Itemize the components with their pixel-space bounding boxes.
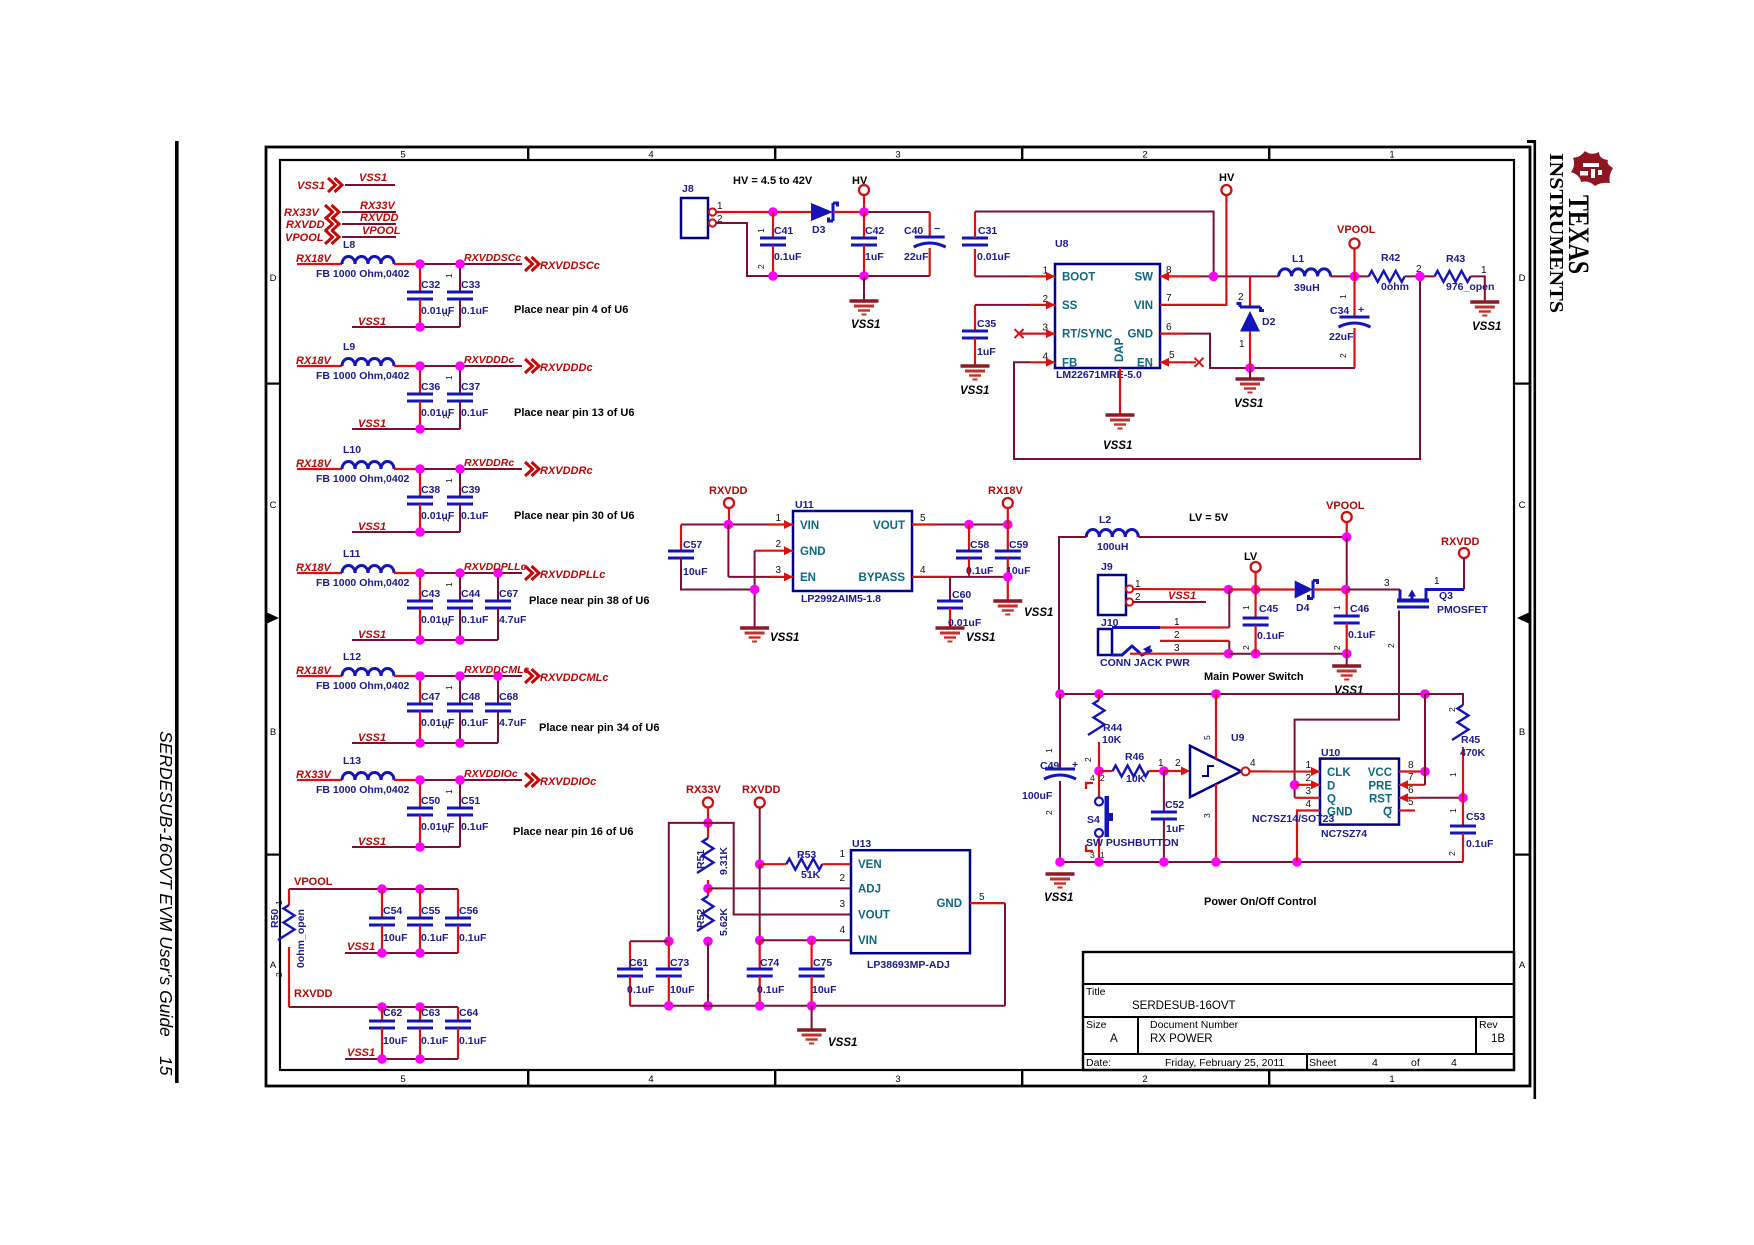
svg-text:L2: L2 — [1099, 514, 1111, 526]
svg-text:C43: C43 — [421, 588, 440, 600]
svg-text:C63: C63 — [421, 1007, 440, 1019]
svg-text:C45: C45 — [1259, 603, 1278, 615]
svg-text:4: 4 — [1305, 799, 1311, 810]
svg-text:976_open: 976_open — [1446, 281, 1494, 293]
svg-text:0.1uF: 0.1uF — [461, 717, 489, 729]
svg-text:RX33V: RX33V — [284, 207, 321, 219]
svg-text:2: 2 — [1447, 851, 1457, 856]
svg-text:C68: C68 — [499, 691, 518, 703]
svg-text:22uF: 22uF — [1329, 331, 1354, 343]
svg-text:0.1uF: 0.1uF — [627, 984, 655, 996]
svg-text:RXVDDIOc: RXVDDIOc — [540, 776, 596, 788]
svg-text:RXVDDIOc: RXVDDIOc — [464, 768, 518, 780]
svg-text:100uH: 100uH — [1097, 541, 1129, 553]
svg-text:C39: C39 — [461, 484, 480, 496]
svg-text:8: 8 — [1408, 760, 1414, 771]
svg-text:7: 7 — [1408, 772, 1414, 783]
svg-text:10K: 10K — [1102, 734, 1122, 746]
svg-text:3: 3 — [1384, 578, 1390, 589]
svg-text:VIN: VIN — [858, 935, 877, 947]
svg-text:1: 1 — [756, 228, 766, 233]
svg-text:D4: D4 — [1296, 602, 1310, 614]
svg-text:Place near pin 38 of U6: Place near pin 38 of U6 — [529, 595, 649, 607]
svg-text:39uH: 39uH — [1294, 282, 1320, 294]
svg-text:0ohm: 0ohm — [1381, 281, 1409, 293]
svg-text:C55: C55 — [421, 905, 440, 917]
svg-text:of: of — [1411, 1057, 1420, 1069]
svg-text:1: 1 — [444, 685, 454, 690]
svg-text:2: 2 — [1332, 645, 1342, 650]
svg-text:RST: RST — [1369, 794, 1392, 806]
svg-text:C41: C41 — [774, 225, 793, 237]
svg-text:RXVDD: RXVDD — [1441, 536, 1480, 548]
svg-text:B: B — [270, 727, 276, 738]
svg-text:4: 4 — [648, 150, 653, 161]
svg-text:VSS1: VSS1 — [1103, 440, 1132, 452]
svg-text:VSS1: VSS1 — [1472, 321, 1501, 333]
svg-text:D2: D2 — [1262, 316, 1276, 328]
svg-text:U9: U9 — [1231, 732, 1245, 744]
svg-text:RXVDD: RXVDD — [360, 212, 399, 224]
svg-text:1: 1 — [1338, 294, 1348, 299]
svg-text:VSS1: VSS1 — [359, 172, 387, 184]
svg-text:R51: R51 — [695, 850, 707, 869]
svg-text:RX POWER: RX POWER — [1150, 1033, 1213, 1045]
svg-text:FB 1000 Ohm,0402: FB 1000 Ohm,0402 — [316, 473, 410, 485]
svg-text:4: 4 — [920, 565, 926, 576]
svg-text:2: 2 — [756, 264, 766, 269]
svg-text:1: 1 — [1239, 339, 1245, 350]
svg-text:C54: C54 — [383, 905, 402, 917]
svg-text:3: 3 — [1090, 850, 1095, 860]
svg-text:SERDESUB-16OVT: SERDESUB-16OVT — [1132, 1000, 1236, 1012]
svg-text:2: 2 — [1174, 630, 1180, 641]
svg-text:RXVDDDc: RXVDDDc — [464, 354, 514, 366]
svg-text:U11: U11 — [795, 499, 814, 511]
svg-text:VSS1: VSS1 — [358, 836, 386, 848]
svg-text:4: 4 — [1090, 773, 1095, 783]
svg-text:VCC: VCC — [1368, 767, 1392, 779]
svg-text:0ohm_open: 0ohm_open — [295, 909, 307, 968]
svg-text:VSS1: VSS1 — [358, 629, 386, 641]
svg-text:+: + — [1072, 759, 1078, 771]
svg-text:Q: Q — [1383, 807, 1392, 819]
svg-text:1: 1 — [444, 478, 454, 483]
svg-text:C33: C33 — [461, 279, 480, 291]
svg-text:5: 5 — [1169, 350, 1175, 361]
svg-text:C58: C58 — [970, 539, 989, 551]
svg-text:4.7uF: 4.7uF — [499, 614, 527, 626]
svg-text:VSS1: VSS1 — [1044, 892, 1073, 904]
svg-text:C73: C73 — [670, 957, 689, 969]
svg-text:1: 1 — [444, 375, 454, 380]
svg-text:5: 5 — [920, 513, 926, 524]
svg-text:C75: C75 — [813, 957, 832, 969]
svg-text:15: 15 — [156, 1056, 176, 1076]
svg-text:2: 2 — [839, 873, 845, 884]
svg-text:CLK: CLK — [1327, 767, 1351, 779]
svg-text:2: 2 — [1305, 773, 1311, 784]
svg-text:2: 2 — [1447, 707, 1457, 712]
svg-text:RXVDDCMLc: RXVDDCMLc — [464, 664, 529, 676]
svg-text:Friday, February 25, 2011: Friday, February 25, 2011 — [1165, 1057, 1284, 1069]
svg-text:L10: L10 — [343, 444, 361, 456]
svg-text:C61: C61 — [629, 957, 648, 969]
svg-text:10uF: 10uF — [812, 984, 837, 996]
svg-text:U13: U13 — [852, 838, 871, 850]
svg-text:R45: R45 — [1461, 734, 1480, 746]
svg-text:0.1uF: 0.1uF — [461, 821, 489, 833]
svg-text:RXVDDSCc: RXVDDSCc — [540, 260, 600, 272]
svg-text:VSS1: VSS1 — [358, 521, 386, 533]
svg-text:C53: C53 — [1466, 811, 1485, 823]
svg-text:1: 1 — [1434, 576, 1440, 587]
svg-text:1: 1 — [1481, 265, 1487, 276]
svg-text:VSS1: VSS1 — [1334, 685, 1363, 697]
svg-text:BOOT: BOOT — [1062, 271, 1095, 283]
svg-text:0.01uF: 0.01uF — [977, 251, 1011, 263]
svg-text:10uF: 10uF — [670, 984, 695, 996]
svg-text:GND: GND — [800, 546, 826, 558]
svg-text:100uF: 100uF — [1022, 790, 1053, 802]
svg-text:C67: C67 — [499, 588, 518, 600]
svg-text:Rev: Rev — [1479, 1019, 1498, 1031]
svg-text:FB 1000 Ohm,0402: FB 1000 Ohm,0402 — [316, 577, 410, 589]
svg-text:5: 5 — [400, 1074, 405, 1085]
svg-text:5: 5 — [400, 150, 405, 161]
svg-text:C38: C38 — [421, 484, 440, 496]
svg-text:VSS1: VSS1 — [358, 418, 386, 430]
svg-text:C51: C51 — [461, 795, 480, 807]
svg-text:1: 1 — [274, 900, 284, 905]
svg-text:Title: Title — [1086, 986, 1106, 998]
svg-text:VSS1: VSS1 — [960, 385, 989, 397]
svg-text:Date:: Date: — [1086, 1057, 1111, 1069]
svg-text:1B: 1B — [1491, 1033, 1505, 1045]
svg-text:0.1uF: 0.1uF — [461, 510, 489, 522]
svg-text:10uF: 10uF — [383, 932, 408, 944]
svg-text:2: 2 — [1100, 773, 1105, 783]
svg-text:PMOSFET: PMOSFET — [1437, 604, 1488, 616]
svg-text:Size: Size — [1086, 1019, 1107, 1031]
svg-text:SERDESUB-16OVT EVM User's Guid: SERDESUB-16OVT EVM User's Guide — [156, 731, 176, 1037]
svg-text:R42: R42 — [1381, 252, 1400, 264]
svg-text:VSS1: VSS1 — [358, 316, 386, 328]
svg-text:1: 1 — [1389, 1074, 1394, 1085]
svg-text:2: 2 — [441, 828, 451, 833]
svg-text:FB 1000 Ohm,0402: FB 1000 Ohm,0402 — [316, 370, 410, 382]
svg-text:VPOOL: VPOOL — [285, 232, 324, 244]
svg-text:2: 2 — [1238, 292, 1244, 303]
svg-text:C50: C50 — [421, 795, 440, 807]
svg-text:D3: D3 — [812, 224, 826, 236]
svg-text:1: 1 — [444, 582, 454, 587]
svg-text:VSS1: VSS1 — [966, 632, 995, 644]
svg-text:FB 1000 Ohm,0402: FB 1000 Ohm,0402 — [316, 680, 410, 692]
svg-text:5.62K: 5.62K — [718, 908, 730, 936]
svg-text:1: 1 — [839, 849, 845, 860]
svg-text:U10: U10 — [1321, 747, 1340, 759]
svg-text:LV = 5V: LV = 5V — [1189, 512, 1229, 524]
svg-text:1: 1 — [717, 201, 723, 212]
svg-text:RXVDD: RXVDD — [294, 988, 333, 1000]
svg-text:0.1uF: 0.1uF — [1257, 630, 1285, 642]
svg-text:6: 6 — [1166, 322, 1172, 333]
svg-text:VOUT: VOUT — [873, 520, 905, 532]
svg-text:Main Power Switch: Main Power Switch — [1204, 671, 1304, 683]
svg-text:Place near pin 4 of U6: Place near pin 4 of U6 — [514, 304, 628, 316]
svg-text:VIN: VIN — [800, 520, 819, 532]
svg-text:2: 2 — [1175, 758, 1181, 769]
svg-text:L8: L8 — [343, 239, 355, 251]
svg-text:C40: C40 — [904, 225, 923, 237]
svg-text:VOUT: VOUT — [858, 910, 890, 922]
svg-text:0.1uF: 0.1uF — [774, 251, 802, 263]
svg-text:10uF: 10uF — [683, 566, 708, 578]
svg-text:1uF: 1uF — [977, 346, 996, 358]
svg-text:J8: J8 — [682, 183, 694, 195]
svg-text:R53: R53 — [797, 849, 816, 861]
svg-text:R50: R50 — [269, 909, 281, 928]
svg-text:1: 1 — [1158, 758, 1164, 769]
svg-text:INSTRUMENTS: INSTRUMENTS — [1545, 153, 1567, 313]
svg-text:0.1uF: 0.1uF — [1466, 838, 1494, 850]
svg-text:1: 1 — [444, 789, 454, 794]
svg-text:C48: C48 — [461, 691, 480, 703]
svg-text:C42: C42 — [865, 225, 884, 237]
svg-text:R46: R46 — [1125, 751, 1144, 763]
svg-text:0.1uF: 0.1uF — [966, 565, 994, 577]
svg-text:SS: SS — [1062, 300, 1078, 312]
svg-text:5: 5 — [1202, 735, 1212, 740]
svg-text:1: 1 — [1305, 760, 1311, 771]
svg-text:1: 1 — [775, 513, 781, 524]
svg-text:RX33V: RX33V — [360, 200, 397, 212]
svg-text:2: 2 — [1241, 645, 1251, 650]
svg-text:2: 2 — [1142, 150, 1147, 161]
svg-text:VSS1: VSS1 — [347, 1047, 375, 1059]
svg-text:Place near pin 34 of U6: Place near pin 34 of U6 — [539, 722, 659, 734]
svg-text:VPOOL: VPOOL — [362, 225, 401, 237]
svg-text:10uF: 10uF — [383, 1035, 408, 1047]
svg-text:Document Number: Document Number — [1150, 1019, 1239, 1031]
svg-text:C32: C32 — [421, 279, 440, 291]
svg-text:4: 4 — [648, 1074, 653, 1085]
svg-text:2: 2 — [1083, 757, 1093, 762]
svg-text:LP38693MP-ADJ: LP38693MP-ADJ — [867, 959, 950, 971]
svg-text:Q: Q — [1327, 794, 1336, 806]
svg-text:D: D — [1519, 273, 1526, 284]
svg-text:C52: C52 — [1165, 799, 1184, 811]
svg-text:C60: C60 — [952, 589, 971, 601]
svg-text:B: B — [1519, 727, 1525, 738]
svg-text:+: + — [1358, 304, 1364, 316]
svg-text:DAP: DAP — [1114, 337, 1126, 362]
svg-text:1: 1 — [1448, 772, 1458, 777]
svg-text:2: 2 — [1044, 810, 1054, 815]
svg-text:Place near pin 13 of U6: Place near pin 13 of U6 — [514, 407, 634, 419]
svg-text:FB 1000 Ohm,0402: FB 1000 Ohm,0402 — [316, 784, 410, 796]
svg-text:6: 6 — [1408, 785, 1414, 796]
svg-text:10K: 10K — [1126, 773, 1146, 785]
svg-text:VPOOL: VPOOL — [1326, 500, 1365, 512]
svg-text:C: C — [1519, 500, 1526, 511]
svg-text:CONN JACK PWR: CONN JACK PWR — [1100, 657, 1190, 669]
svg-text:4.7uF: 4.7uF — [499, 717, 527, 729]
svg-text:C: C — [270, 500, 277, 511]
svg-text:C36: C36 — [421, 381, 440, 393]
svg-text:C34: C34 — [1330, 305, 1349, 317]
svg-text:L11: L11 — [343, 548, 361, 560]
svg-text:9.31K: 9.31K — [718, 847, 730, 875]
svg-text:3: 3 — [775, 565, 781, 576]
svg-text:0.1uF: 0.1uF — [421, 932, 449, 944]
svg-text:RXVDD: RXVDD — [709, 485, 748, 497]
svg-text:GND: GND — [936, 898, 962, 910]
svg-text:2: 2 — [441, 517, 451, 522]
svg-text:LM22671MRE-5.0: LM22671MRE-5.0 — [1056, 369, 1142, 381]
svg-text:C62: C62 — [383, 1007, 402, 1019]
svg-text:C59: C59 — [1009, 539, 1028, 551]
svg-text:4: 4 — [1250, 758, 1256, 769]
svg-text:3: 3 — [1174, 643, 1180, 654]
svg-text:4: 4 — [839, 925, 845, 936]
svg-text:C35: C35 — [977, 318, 996, 330]
svg-text:22uF: 22uF — [904, 251, 929, 263]
svg-text:Sheet: Sheet — [1309, 1057, 1337, 1069]
svg-text:R44: R44 — [1103, 722, 1122, 734]
svg-text:VSS1: VSS1 — [347, 941, 375, 953]
svg-text:A: A — [1519, 960, 1526, 971]
svg-text:3: 3 — [895, 1074, 900, 1085]
svg-text:0.1uF: 0.1uF — [1348, 629, 1376, 641]
svg-text:C57: C57 — [683, 539, 702, 551]
svg-text:Place near pin 30 of U6: Place near pin 30 of U6 — [514, 510, 634, 522]
svg-text:RX18V: RX18V — [988, 485, 1024, 497]
svg-text:0.1uF: 0.1uF — [459, 1035, 487, 1047]
svg-text:RXVDD: RXVDD — [742, 784, 781, 796]
svg-text:RXVDDRc: RXVDDRc — [540, 465, 593, 477]
svg-text:C49: C49 — [1040, 760, 1059, 772]
svg-text:C44: C44 — [461, 588, 480, 600]
svg-text:2: 2 — [441, 621, 451, 626]
svg-text:3: 3 — [1305, 786, 1311, 797]
svg-text:D: D — [270, 273, 277, 284]
svg-text:HV = 4.5 to 42V: HV = 4.5 to 42V — [733, 175, 813, 187]
svg-text:1: 1 — [1332, 605, 1342, 610]
svg-text:1uF: 1uF — [865, 251, 884, 263]
svg-text:RT/SYNC: RT/SYNC — [1062, 329, 1112, 341]
svg-text:VSS1: VSS1 — [297, 180, 325, 192]
svg-text:2: 2 — [1338, 353, 1348, 358]
svg-text:1: 1 — [1448, 808, 1458, 813]
svg-text:EN: EN — [1137, 357, 1153, 369]
svg-text:C64: C64 — [459, 1007, 478, 1019]
svg-text:2: 2 — [274, 972, 284, 977]
svg-text:PRE: PRE — [1368, 781, 1392, 793]
svg-text:EN: EN — [800, 572, 816, 584]
svg-text:2: 2 — [775, 539, 781, 550]
svg-text:C31: C31 — [978, 225, 997, 237]
svg-text:0.1uF: 0.1uF — [421, 1035, 449, 1047]
svg-text:RXVDDDc: RXVDDDc — [540, 362, 593, 374]
svg-text:U8: U8 — [1055, 238, 1069, 250]
svg-text:VSS1: VSS1 — [1168, 590, 1196, 602]
svg-text:RXVDD: RXVDD — [286, 219, 325, 231]
svg-text:VSS1: VSS1 — [358, 732, 386, 744]
svg-text:GND: GND — [1127, 329, 1153, 341]
svg-text:0.1uF: 0.1uF — [459, 932, 487, 944]
svg-text:LP2992AIM5-1.8: LP2992AIM5-1.8 — [801, 593, 881, 605]
svg-text:VSS1: VSS1 — [770, 632, 799, 644]
svg-text:RXVDDPLLc: RXVDDPLLc — [464, 561, 527, 573]
svg-text:HV: HV — [1219, 172, 1235, 184]
svg-text:L13: L13 — [343, 755, 361, 767]
svg-text:SW: SW — [1134, 271, 1153, 283]
svg-text:ADJ: ADJ — [858, 884, 881, 896]
svg-text:VPOOL: VPOOL — [294, 876, 333, 888]
svg-text:4: 4 — [1451, 1057, 1457, 1069]
svg-text:470K: 470K — [1460, 747, 1486, 759]
svg-text:L9: L9 — [343, 341, 355, 353]
svg-text:0.1uF: 0.1uF — [461, 305, 489, 317]
svg-text:L1: L1 — [1292, 253, 1304, 265]
svg-text:1: 1 — [1389, 150, 1394, 161]
svg-text:2: 2 — [1416, 264, 1422, 275]
svg-text:C47: C47 — [421, 691, 440, 703]
svg-text:RX33V: RX33V — [686, 784, 722, 796]
svg-text:NC7SZ14/SOT23: NC7SZ14/SOT23 — [1252, 813, 1334, 825]
svg-text:FB 1000 Ohm,0402: FB 1000 Ohm,0402 — [316, 268, 410, 280]
svg-text:0.1uF: 0.1uF — [461, 614, 489, 626]
svg-text:C46: C46 — [1350, 603, 1369, 615]
svg-text:S4: S4 — [1087, 814, 1100, 826]
svg-text:3: 3 — [1202, 813, 1212, 818]
svg-text:VIN: VIN — [1134, 300, 1153, 312]
svg-text:VPOOL: VPOOL — [1337, 224, 1376, 236]
svg-text:2: 2 — [441, 414, 451, 419]
svg-text:1: 1 — [1241, 605, 1251, 610]
svg-text:Power On/Off Control: Power On/Off Control — [1204, 896, 1316, 908]
svg-text:0.1uF: 0.1uF — [757, 984, 785, 996]
svg-text:VSS1: VSS1 — [1024, 607, 1053, 619]
svg-text:−: − — [934, 223, 940, 235]
svg-text:RXVDDPLLc: RXVDDPLLc — [540, 569, 605, 581]
svg-text:RXVDDRc: RXVDDRc — [464, 457, 514, 469]
svg-text:VSS1: VSS1 — [828, 1037, 857, 1049]
svg-text:R52: R52 — [695, 909, 707, 928]
svg-text:1uF: 1uF — [1166, 823, 1185, 835]
svg-text:FB: FB — [1062, 357, 1077, 369]
svg-text:1: 1 — [1174, 617, 1180, 628]
svg-text:VEN: VEN — [858, 859, 882, 871]
svg-text:5: 5 — [979, 892, 985, 903]
svg-text:3: 3 — [839, 899, 845, 910]
svg-text:L12: L12 — [343, 651, 361, 663]
svg-text:D: D — [1327, 781, 1335, 793]
svg-text:C37: C37 — [461, 381, 480, 393]
svg-text:4: 4 — [1372, 1057, 1378, 1069]
svg-text:R43: R43 — [1446, 253, 1465, 265]
svg-text:VSS1: VSS1 — [851, 319, 880, 331]
svg-text:C74: C74 — [760, 957, 779, 969]
svg-text:2: 2 — [441, 724, 451, 729]
svg-text:7: 7 — [1166, 293, 1172, 304]
svg-text:3: 3 — [895, 150, 900, 161]
svg-text:J9: J9 — [1101, 561, 1113, 573]
svg-text:VSS1: VSS1 — [1234, 398, 1263, 410]
svg-text:2: 2 — [1142, 1074, 1147, 1085]
